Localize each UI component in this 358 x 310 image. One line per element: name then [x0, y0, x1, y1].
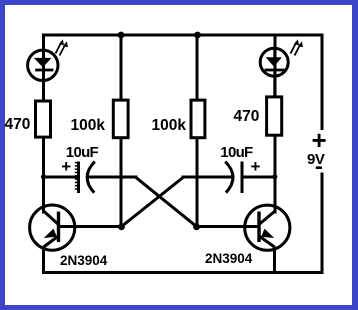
- wire 100k left bottom vertical: [120, 139, 123, 227]
- wire C1 left lead: [44, 176, 78, 179]
- resistor R2 100k: [113, 100, 128, 138]
- wire C2 left lead: [183, 176, 233, 179]
- svg-text:470: 470: [234, 108, 260, 125]
- svg-text:+: +: [251, 157, 261, 176]
- svg-text:470: 470: [5, 116, 31, 133]
- resistor R4 470: [267, 97, 282, 135]
- capacitor C1 10uF: [75, 162, 95, 194]
- LED D1: [28, 39, 68, 99]
- wire Q1 base lead: [60, 225, 121, 228]
- transistor Q1 2N3904: [30, 205, 75, 250]
- wire C1 right lead: [88, 176, 136, 179]
- wire R4-to-Q2 vertical: [274, 137, 277, 212]
- wire Q2 base lead: [197, 225, 258, 228]
- wire LED2 branch vertical: [274, 35, 277, 96]
- node C1 left T junction: [41, 174, 46, 179]
- node C2 right T junction: [272, 174, 277, 179]
- svg-text:10uF: 10uF: [220, 144, 253, 161]
- wire cross diagonal C1-to-Q2base: [136, 178, 197, 227]
- wire 100k right top vertical: [196, 35, 199, 99]
- svg-text:9V: 9V: [307, 151, 325, 168]
- resistor R3 100k: [191, 100, 205, 138]
- resistor R1 470: [36, 101, 51, 137]
- node top-right junction: [194, 32, 201, 39]
- svg-text:100k: 100k: [71, 117, 106, 134]
- wire 100k left top vertical: [120, 35, 123, 99]
- node Q1 base junction: [118, 223, 125, 230]
- transistor Q2 2N3904: [245, 205, 290, 250]
- wire C2 right lead: [243, 176, 276, 179]
- node top-left junction: [118, 32, 125, 39]
- wire 100k right bottom vertical: [196, 139, 199, 227]
- wire R1-to-Q1 vertical: [42, 139, 45, 212]
- svg-text:2N3904: 2N3904: [60, 253, 108, 268]
- label battery minus: [316, 166, 322, 169]
- capacitor C2 10uF: [225, 162, 242, 194]
- svg-text:2N3904: 2N3904: [205, 251, 253, 266]
- wire top rail: [44, 35, 323, 129]
- wire Q2 emitter to bottom: [273, 248, 276, 273]
- wire cross diagonal C2-to-Q1base: [122, 178, 184, 227]
- LED D2: [260, 39, 303, 95]
- wire LED1 branch vertical: [42, 49, 45, 99]
- node Q2 base junction: [193, 223, 200, 230]
- svg-text:+: +: [61, 157, 71, 176]
- wire bottom rail: [44, 174, 323, 273]
- svg-text:100k: 100k: [152, 117, 187, 134]
